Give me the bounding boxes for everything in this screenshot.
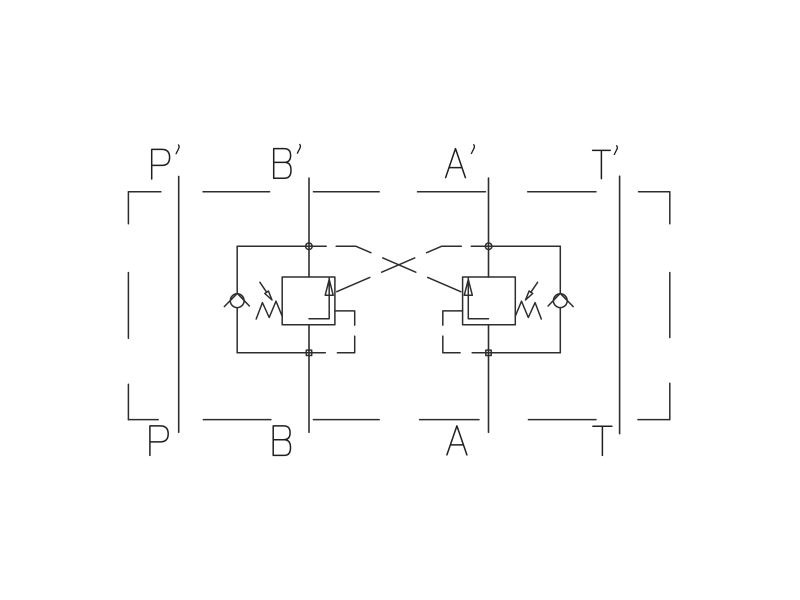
RV2 spring: [515, 301, 541, 319]
RV2 adjustment arrow shaft: [531, 282, 538, 292]
enclosure dashed border: left edge: [127, 192, 129, 420]
port label P (bottom): [150, 426, 168, 456]
check valve CV1 seat: [224, 294, 249, 307]
pilot cross line from node A to RV1 (dashed): [335, 246, 461, 292]
RV2 internal arrowhead: [464, 279, 472, 295]
RV2 pilot line loop (dashed): [443, 311, 469, 353]
wire: RV1 bottom loop: [237, 352, 325, 354]
port label P' (top): [152, 145, 179, 179]
wire: RV2 right branch upper: [559, 246, 561, 293]
enclosure dashed border: right edge: [669, 192, 671, 420]
RV1 internal flow path: [309, 277, 329, 319]
port label T (bottom): [593, 426, 612, 455]
relief valve RV2 body: [463, 277, 516, 325]
port label B (bottom): [273, 426, 290, 456]
port label A (bottom): [447, 426, 467, 455]
RV1 internal arrowhead: [325, 279, 333, 295]
RV1 pilot line loop (dashed): [329, 311, 355, 353]
wire: port line A upper: [488, 178, 490, 277]
RV1 adjustment arrow shaft: [260, 282, 267, 292]
port label B' (top): [274, 144, 301, 178]
RV2 adjustment arrowhead: [526, 291, 533, 300]
wire: RV2 bottom loop: [472, 352, 560, 354]
node: B junction bottom (square): [306, 350, 311, 355]
enclosure dashed border: bottom edge: [128, 419, 669, 421]
wire: RV1 left branch lower: [236, 308, 238, 353]
wire: port line P: [178, 176, 180, 432]
port label A' (top): [446, 145, 475, 178]
RV1 spring: [256, 301, 282, 319]
wire: RV2 right branch lower: [559, 308, 561, 353]
node: B junction top (circle): [306, 243, 313, 250]
enclosure dashed border: top edge: [128, 191, 669, 193]
relief valve RV1 body: [282, 277, 335, 325]
wire: RV1 left branch upper: [236, 246, 238, 293]
wire: RV2 top loop: [471, 245, 560, 247]
check valve CV2 ball: [553, 294, 567, 308]
check valve CV1 ball: [230, 294, 244, 308]
RV2 internal flow path: [468, 277, 488, 319]
RV1 adjustment arrowhead: [265, 291, 272, 300]
wire: RV1 top loop: [237, 245, 326, 247]
wire: port line B upper: [308, 178, 310, 277]
pilot cross line from node B to RV2 (dashed): [336, 246, 462, 292]
node: A junction top (circle): [485, 243, 492, 250]
check valve CV2 seat: [548, 294, 573, 307]
node: A junction bottom (square): [486, 350, 491, 355]
wire: port line T: [619, 176, 621, 433]
port label T' (top): [593, 146, 618, 179]
wire: port line B lower: [308, 325, 310, 433]
wire: port line A lower: [488, 325, 490, 433]
